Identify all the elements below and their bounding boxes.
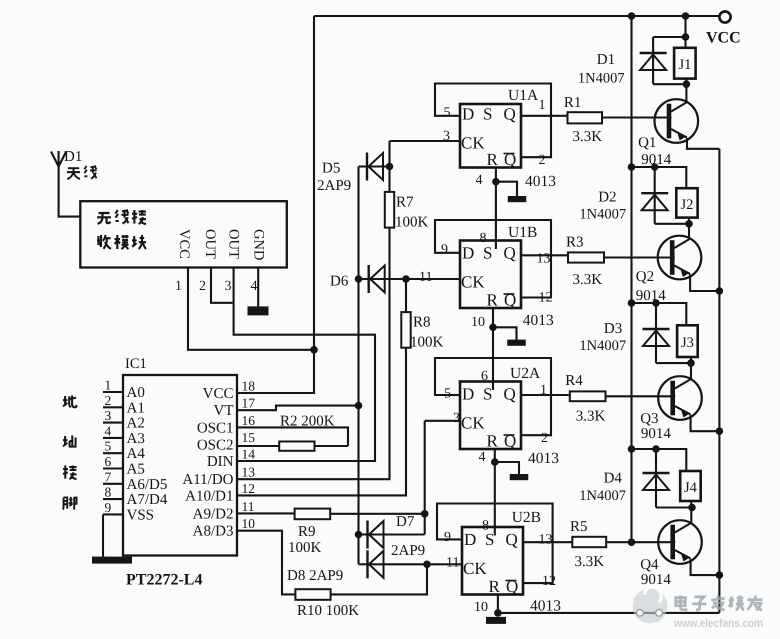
svg-text:4: 4 xyxy=(105,423,112,438)
node U2B R junction xyxy=(494,609,502,617)
svg-text:1: 1 xyxy=(105,378,112,393)
svg-text:J3: J3 xyxy=(681,335,694,351)
svg-text:Q3: Q3 xyxy=(640,411,658,427)
watermark text www.elecfans.com xyxy=(673,616,763,630)
pin 8 U2B xyxy=(482,519,489,534)
wire pin13 A11/DO riser to CK U1A xyxy=(237,141,390,479)
svg-text:VSS: VSS xyxy=(127,507,155,523)
node rail4 diode xyxy=(652,445,660,453)
relay J2 xyxy=(676,188,697,217)
svg-text:VCC: VCC xyxy=(176,229,192,259)
diode D4 1N4007 xyxy=(643,449,670,508)
relay J3 xyxy=(677,325,698,357)
label D5 2AP9 xyxy=(317,161,351,195)
svg-text:4013: 4013 xyxy=(525,173,556,190)
label 地址接脚 xyxy=(63,395,77,509)
wire D1 top branch xyxy=(653,36,685,38)
antenna label 天线 xyxy=(67,166,97,179)
wire pin15 OSC2 to R2 xyxy=(237,445,348,447)
label D7 2AP9 xyxy=(391,514,425,559)
wire Q U2A to R4 xyxy=(521,395,570,396)
svg-text:11: 11 xyxy=(242,499,255,514)
IC1 pin 10 A8/D3 label xyxy=(193,516,256,540)
svg-text:10: 10 xyxy=(474,600,488,615)
transistor Q2 9014 xyxy=(658,236,702,280)
svg-text:D7: D7 xyxy=(396,514,415,530)
svg-text:OUT: OUT xyxy=(226,229,242,259)
pin 12 U1B xyxy=(539,291,553,306)
svg-text:OUT: OUT xyxy=(202,229,218,259)
svg-text:D4: D4 xyxy=(604,471,623,487)
svg-text:7: 7 xyxy=(105,469,112,484)
node J3 bottom xyxy=(687,359,695,367)
label 1N4007 D2 xyxy=(579,207,626,223)
relay J1 xyxy=(674,48,696,79)
pin 13 U1B xyxy=(537,252,551,267)
svg-text:A11/DO: A11/DO xyxy=(182,472,233,488)
label Q1 xyxy=(638,135,656,151)
pin 5 U1A xyxy=(444,106,451,121)
transistor Q1 9014 xyxy=(655,99,699,143)
pin 10 U2B xyxy=(474,600,488,615)
svg-text:A6/D5: A6/D5 xyxy=(127,477,168,493)
node D6 anode junction xyxy=(402,275,410,283)
svg-text:10: 10 xyxy=(471,315,485,330)
decoder IC1 PT2272-L4 box xyxy=(123,375,237,556)
resistor R4 xyxy=(570,391,606,401)
label 3.3K R4 xyxy=(576,409,606,425)
label U1B xyxy=(508,224,537,241)
IC1 pin 1 A0 xyxy=(103,378,145,402)
svg-text:A8/D3: A8/D3 xyxy=(193,524,234,540)
wireless receiver module box xyxy=(80,201,286,267)
resistor R9 xyxy=(295,509,331,520)
resistor R8 xyxy=(401,312,410,348)
svg-text:17: 17 xyxy=(242,396,256,411)
wire emitter rail right xyxy=(718,149,720,613)
flip-flop U1B letters xyxy=(461,244,516,310)
svg-text:VCC: VCC xyxy=(203,386,234,402)
flip-flop U2A letters xyxy=(461,385,516,451)
svg-text:PT2272-L4: PT2272-L4 xyxy=(126,572,202,589)
svg-text:2: 2 xyxy=(199,279,206,294)
svg-text:S: S xyxy=(483,385,492,404)
svg-text:A10/D1: A10/D1 xyxy=(185,488,233,504)
label R7 100K xyxy=(395,195,429,231)
flip-flop U1A box xyxy=(460,104,521,168)
svg-text:2AP9: 2AP9 xyxy=(391,543,425,559)
wire module pin2 OUT xyxy=(211,268,234,303)
svg-text:U2B: U2B xyxy=(512,509,541,526)
svg-text:OSC2: OSC2 xyxy=(197,438,234,454)
wire antenna to module xyxy=(59,216,81,218)
label R1 xyxy=(564,95,582,111)
wire D2 J2 rail xyxy=(632,167,687,188)
svg-text:U1A: U1A xyxy=(508,87,539,104)
node D1 top xyxy=(682,33,690,41)
module pin number 3 xyxy=(225,279,232,294)
node D6 cathode VT xyxy=(355,275,363,283)
node R5 vertical junction xyxy=(628,538,636,546)
svg-text:9014: 9014 xyxy=(636,288,667,304)
wire R5 to Q4 base xyxy=(606,541,675,543)
wire module pin1 VCC to rail xyxy=(188,268,314,350)
IC1 pin 6 A5 xyxy=(103,454,145,478)
svg-text:100K: 100K xyxy=(288,540,322,556)
wire U1B R to ground and U2A S xyxy=(493,308,517,390)
wire D1 bottom branch xyxy=(653,79,686,103)
label D2 xyxy=(598,190,616,206)
ground module xyxy=(248,306,269,315)
module pin label OUT xyxy=(202,229,218,259)
svg-text:Q: Q xyxy=(504,385,516,404)
label U2B xyxy=(512,509,541,526)
svg-text:R4: R4 xyxy=(565,373,583,389)
transistor Q4 9014 xyxy=(658,520,702,564)
label R4 xyxy=(565,373,583,389)
node rail2 diode xyxy=(651,163,659,171)
label R9 100K xyxy=(288,524,322,556)
label R8 100K xyxy=(410,315,444,351)
svg-text:A3: A3 xyxy=(127,431,145,447)
watermark text 电子发烧友 xyxy=(676,596,763,611)
node R9 CK U2A junction xyxy=(421,510,429,518)
wire U1B feedback loop xyxy=(435,220,551,298)
module pin label OUT xyxy=(226,229,242,259)
svg-text:5: 5 xyxy=(105,439,112,454)
label 1N4007 D3 xyxy=(579,338,626,354)
ground U1B R xyxy=(507,340,526,346)
svg-text:D3: D3 xyxy=(604,321,622,337)
diode D6 xyxy=(359,265,460,293)
pin 11 U1B xyxy=(419,270,432,285)
svg-text:R5: R5 xyxy=(570,519,588,535)
wire U2A R to ground and U2B S xyxy=(495,449,519,536)
resistor R5 xyxy=(572,537,606,547)
svg-text:12: 12 xyxy=(242,481,256,496)
svg-text:12: 12 xyxy=(542,574,556,589)
label 3.3K R1 xyxy=(573,129,603,145)
IC1 pin 15 OSC2 label xyxy=(197,430,255,454)
svg-text:9: 9 xyxy=(441,243,448,258)
svg-text:2: 2 xyxy=(539,153,546,168)
svg-text:1N4007: 1N4007 xyxy=(578,71,625,87)
pin 2 U1A xyxy=(539,153,546,168)
node module VCC junction xyxy=(310,346,318,354)
module text 收模块 xyxy=(97,235,146,249)
svg-text:2: 2 xyxy=(105,393,112,408)
diode D7 xyxy=(359,421,425,549)
svg-text:3: 3 xyxy=(453,411,460,426)
svg-text:VCC: VCC xyxy=(706,30,741,47)
IC1 pin 12 A10/D1 label xyxy=(185,481,255,505)
wire U1A R to ground and U1B S xyxy=(496,168,517,250)
module pin number 2 xyxy=(199,279,206,294)
pin 10 U1B xyxy=(471,315,485,330)
wire Q4 emitter to rail xyxy=(691,559,720,575)
module text 无线接 xyxy=(97,210,146,224)
node top rail relay J1 xyxy=(682,12,690,20)
wire Q2 emitter to rail xyxy=(690,275,719,292)
label Q3 xyxy=(640,411,658,427)
label 9014 Q3 xyxy=(641,426,672,442)
svg-text:18: 18 xyxy=(242,379,256,394)
pin 13 U2B xyxy=(539,533,553,548)
svg-text:J4: J4 xyxy=(684,480,698,496)
svg-text:OSC1: OSC1 xyxy=(197,420,234,436)
label Q2 xyxy=(636,269,654,285)
IC1 pin 2 A1 xyxy=(103,393,145,417)
svg-text:A7/D4: A7/D4 xyxy=(127,492,168,508)
antenna D1 xyxy=(51,151,66,218)
IC1 pin 8 A7/D4 xyxy=(103,485,168,509)
wire J1 riser from rail xyxy=(684,16,686,48)
svg-text:D: D xyxy=(462,385,474,404)
wire CK U2A xyxy=(425,420,460,422)
svg-text:1N4007: 1N4007 xyxy=(579,338,626,354)
label D1 xyxy=(597,52,615,68)
wire D4 J4 rail xyxy=(632,449,687,471)
wire pin18 VCC riser xyxy=(237,16,314,393)
svg-text:A4: A4 xyxy=(127,446,146,462)
diode D3 1N4007 xyxy=(643,303,670,363)
pin 9 U1B xyxy=(441,243,448,258)
resistor R1 xyxy=(568,112,603,123)
svg-text:Q2: Q2 xyxy=(636,269,654,285)
label 4013 U2A xyxy=(528,450,559,467)
svg-text:A9/D2: A9/D2 xyxy=(193,506,234,522)
svg-text:4: 4 xyxy=(251,279,258,294)
svg-text:VT: VT xyxy=(214,403,234,419)
svg-text:100K: 100K xyxy=(395,215,429,231)
node rail4 left xyxy=(628,445,636,453)
IC1 pin 16 OSC1 label xyxy=(197,413,255,437)
wire pin11 A9/D2 to R9 xyxy=(237,512,425,514)
resistor R10 xyxy=(295,589,330,600)
ground U1A R xyxy=(508,196,527,202)
diode D2 1N4007 xyxy=(641,167,668,224)
pin 8 U1B xyxy=(480,231,487,246)
svg-text:2: 2 xyxy=(541,431,548,446)
svg-text:CK: CK xyxy=(461,414,485,433)
svg-text:Q: Q xyxy=(504,105,516,124)
svg-text:1N4007: 1N4007 xyxy=(579,488,626,504)
wire pin17 VT xyxy=(237,406,359,411)
node emitter rail Q3 xyxy=(716,427,724,435)
svg-text:CK: CK xyxy=(461,134,485,153)
svg-text:D1: D1 xyxy=(597,52,615,68)
svg-text:4013: 4013 xyxy=(528,450,559,467)
node U1A R junction xyxy=(492,178,500,186)
ground IC1 VSS xyxy=(92,557,132,564)
svg-text:D: D xyxy=(464,530,476,549)
IC1 pin 17 VT label xyxy=(214,396,256,420)
svg-text:D5: D5 xyxy=(322,161,340,177)
ground U2A R xyxy=(510,474,529,480)
svg-text:6: 6 xyxy=(105,454,112,469)
wire D3 bottom branch xyxy=(656,357,691,380)
flip-flop U1A letters D S Q CK R Qbar xyxy=(461,105,516,170)
svg-text:CK: CK xyxy=(463,559,487,578)
pin 1 U1A xyxy=(539,98,546,113)
svg-text:D6: D6 xyxy=(330,274,349,290)
node VT junction xyxy=(355,402,363,410)
label 4013 U1A xyxy=(525,173,556,190)
wire VT vertical line xyxy=(357,167,359,565)
wire U2A feedback loop xyxy=(435,358,551,435)
wire pin10 A8/D3 to R10 xyxy=(237,531,427,595)
label 9014 Q4 xyxy=(641,572,672,588)
label 9014 Q2 xyxy=(636,288,667,304)
svg-text:IC1: IC1 xyxy=(125,356,147,372)
node rail2 left xyxy=(628,163,636,171)
svg-text:15: 15 xyxy=(242,430,256,445)
wire U2B R to bottom rail xyxy=(497,595,499,613)
diode D5 xyxy=(359,153,390,181)
svg-text:R3: R3 xyxy=(566,235,584,251)
svg-text:100K: 100K xyxy=(410,335,444,351)
node J4 bottom xyxy=(688,504,696,512)
module pin label VCC xyxy=(176,229,192,259)
pin 6 U2A xyxy=(481,369,488,384)
terminal VCC circle xyxy=(719,11,730,22)
pin 4 U2A xyxy=(479,450,486,465)
svg-text:16: 16 xyxy=(242,413,256,428)
svg-text:8: 8 xyxy=(105,485,112,500)
svg-text:CK: CK xyxy=(461,273,485,292)
svg-text:4: 4 xyxy=(476,173,483,188)
flip-flop U1B box xyxy=(460,241,521,309)
wire Q1 emitter to rail xyxy=(687,138,719,149)
wire U1A feedback loop D to Qbar xyxy=(435,84,551,158)
wire R3 to Q2 base xyxy=(604,256,675,258)
pin 5 U2A xyxy=(444,387,451,402)
node emitter rail Q2 xyxy=(716,287,724,295)
svg-text:8: 8 xyxy=(480,231,487,246)
resistor R3 xyxy=(568,252,604,262)
svg-text:2AP9: 2AP9 xyxy=(317,178,351,194)
svg-text:R: R xyxy=(489,577,501,596)
svg-text:U2A: U2A xyxy=(510,365,541,382)
pin 12 U2B xyxy=(542,574,556,589)
wire Q U2B to R5 xyxy=(523,541,572,543)
svg-text:Q: Q xyxy=(504,244,516,263)
svg-text:R: R xyxy=(487,432,499,451)
label Q4 xyxy=(640,557,659,573)
antenna label D1 xyxy=(64,149,82,165)
wire R4 to Q3 base xyxy=(606,395,676,397)
module pin number 1 xyxy=(175,279,182,294)
label 1N4007 D1 xyxy=(578,71,625,87)
svg-text:3.3K: 3.3K xyxy=(576,409,606,425)
resistor R2 xyxy=(279,442,314,451)
svg-text:S: S xyxy=(483,105,492,124)
pin 11 U2B xyxy=(446,556,459,571)
label U1A xyxy=(508,87,539,104)
svg-text:R: R xyxy=(487,150,499,169)
svg-text:3: 3 xyxy=(225,279,232,294)
node top rail left xyxy=(628,12,636,20)
transistor Q3 9014 xyxy=(658,376,702,420)
svg-text:D: D xyxy=(462,105,474,124)
svg-text:13: 13 xyxy=(242,465,256,480)
svg-text:D: D xyxy=(462,244,474,263)
node U1B R junction xyxy=(489,324,497,332)
pin 4 U1A xyxy=(476,173,483,188)
label R2 200K xyxy=(280,414,335,430)
svg-text:R1: R1 xyxy=(564,95,582,111)
svg-text:D2: D2 xyxy=(598,190,616,206)
pin 3 U2A xyxy=(453,411,460,426)
wire pin16 OSC1 loop xyxy=(237,427,348,446)
wire VCC distribution vertical xyxy=(630,16,632,542)
svg-text:R9: R9 xyxy=(298,524,316,540)
node D5 anode junction xyxy=(386,163,394,171)
pin 1 U2A xyxy=(540,383,547,398)
svg-text:9: 9 xyxy=(105,500,112,515)
ground U2B R xyxy=(486,617,506,624)
svg-text:J1: J1 xyxy=(679,57,692,73)
node rail3 left xyxy=(628,299,636,307)
wire R1 to Q1 base xyxy=(602,116,672,118)
wire Q U1A to R1 xyxy=(521,115,568,117)
svg-text:11: 11 xyxy=(446,556,459,571)
node emitter rail Q4 xyxy=(716,571,724,579)
IC1 pin 18 VCC label xyxy=(203,379,256,403)
module pin label GND xyxy=(251,229,267,260)
node rail3 diode xyxy=(652,299,660,307)
label 4013 U1B xyxy=(523,312,554,329)
svg-text:D1: D1 xyxy=(64,149,82,165)
wire D4 bottom branch xyxy=(656,501,692,524)
svg-text:A2: A2 xyxy=(127,416,145,432)
svg-text:9: 9 xyxy=(444,530,451,545)
svg-text:A0: A0 xyxy=(127,385,145,401)
svg-text:J2: J2 xyxy=(681,197,694,213)
label 1N4007 D4 xyxy=(579,488,626,504)
module pin number 4 xyxy=(251,279,258,294)
wire D3 J3 rail xyxy=(632,303,687,325)
svg-text:U1B: U1B xyxy=(508,224,537,241)
flip-flop U2B box xyxy=(462,527,523,595)
svg-text:6: 6 xyxy=(481,369,488,384)
svg-text:1: 1 xyxy=(175,279,182,294)
svg-text:1N4007: 1N4007 xyxy=(579,207,626,223)
svg-text:R7: R7 xyxy=(396,195,414,211)
svg-text:3.3K: 3.3K xyxy=(575,554,605,570)
IC1 pin 3 A2 xyxy=(103,408,145,432)
wire Q U1B to R3 xyxy=(521,255,568,257)
svg-text:13: 13 xyxy=(537,252,551,267)
svg-text:DIN: DIN xyxy=(207,454,234,470)
svg-text:GND: GND xyxy=(251,229,267,260)
label 3.3K R3 xyxy=(573,272,603,288)
svg-text:12: 12 xyxy=(539,291,553,306)
label U2A xyxy=(510,365,541,382)
resistor R7 xyxy=(385,192,394,228)
svg-text:9014: 9014 xyxy=(641,426,672,442)
IC U-label IC1 xyxy=(125,356,147,372)
label 3.3K R5 xyxy=(575,554,605,570)
svg-text:3.3K: 3.3K xyxy=(573,129,603,145)
IC1 pin 5 A4 xyxy=(103,439,145,463)
svg-text:1: 1 xyxy=(539,98,546,113)
IC1 pin 7 A6/D5 xyxy=(103,469,167,493)
label PT2272-L4 xyxy=(126,572,202,589)
svg-text:14: 14 xyxy=(242,447,256,462)
svg-text:4013: 4013 xyxy=(523,312,554,329)
pin 3 U1A xyxy=(443,129,450,144)
